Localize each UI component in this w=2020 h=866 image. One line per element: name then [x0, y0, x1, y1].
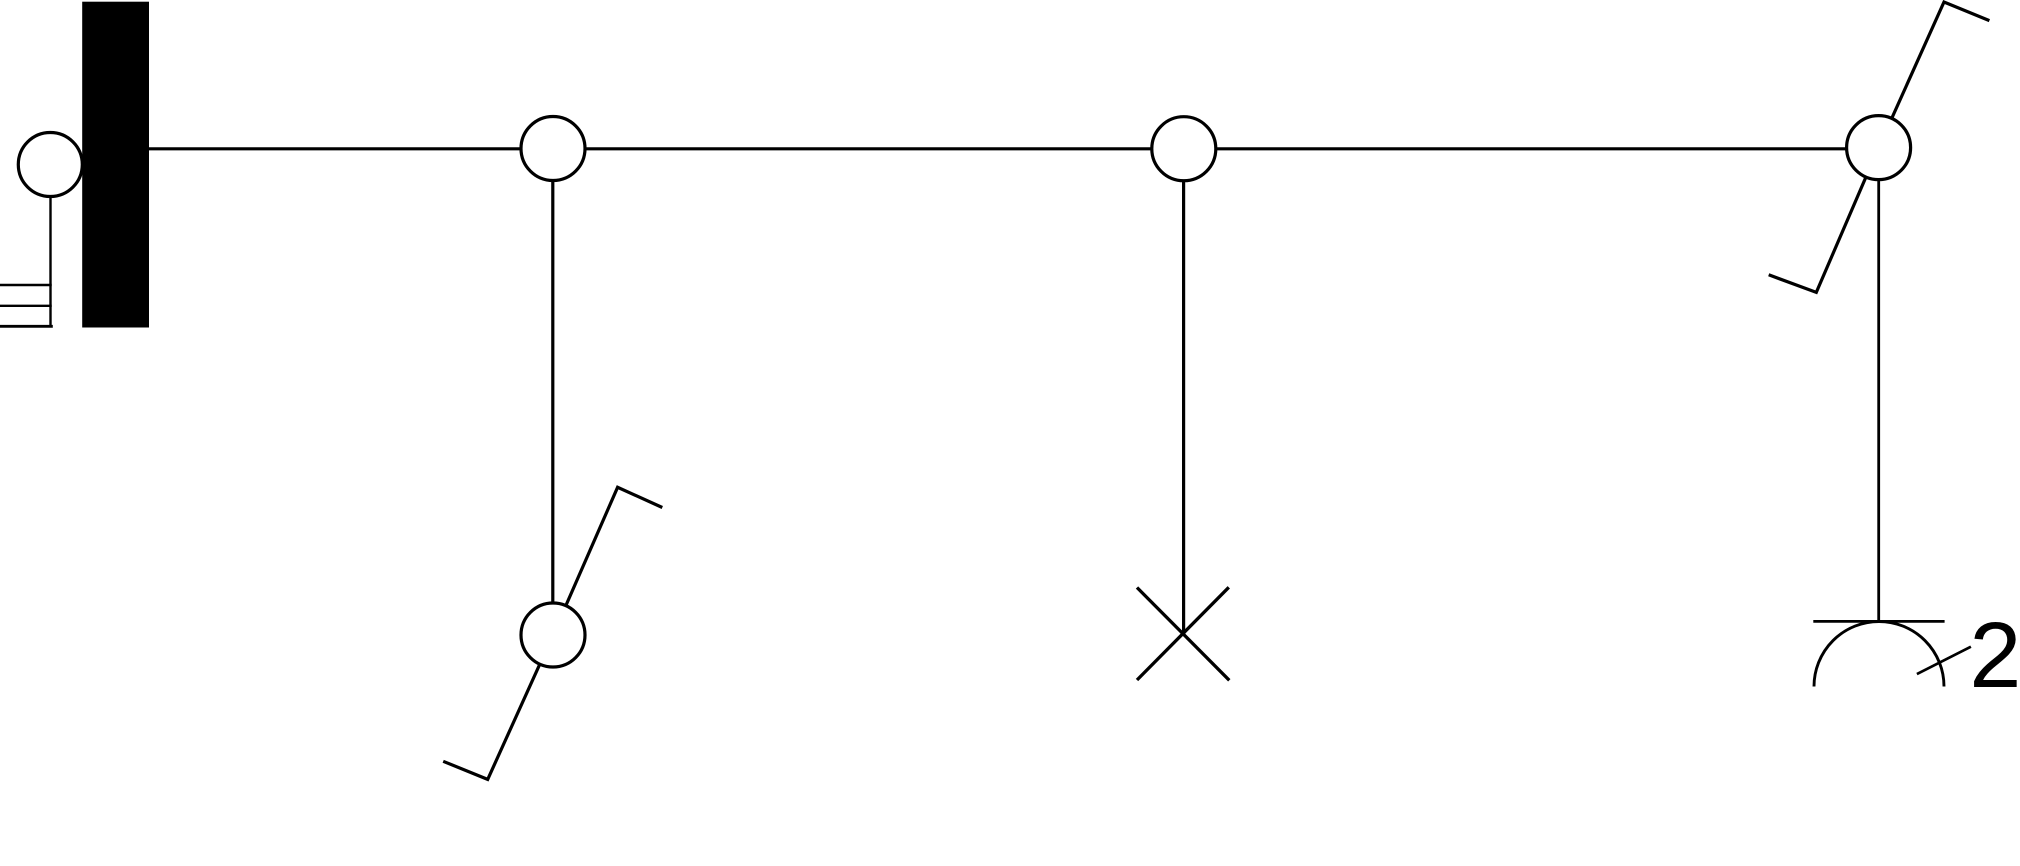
- switch S2 upper lever: [1879, 2, 1990, 148]
- switch S2 circle on bus: [1847, 116, 1911, 180]
- wire: drop from node J2 to lamp: [1182, 150, 1185, 634]
- switch S1 upper lever: [553, 487, 662, 635]
- wire: drop from switch S2 to socket: [1877, 150, 1880, 621]
- generator/meter circle: [18, 133, 82, 197]
- earth electrode line 2: [0, 305, 52, 307]
- earth electrode line 1: [0, 284, 52, 286]
- node J1 (junction box on bus): [521, 117, 585, 181]
- socket quantity label 2: [1969, 603, 2020, 707]
- wire: generator drop to earth: [49, 180, 51, 327]
- switch S1 lower lever: [443, 635, 553, 779]
- lamp outlet X stroke 2: [1137, 587, 1229, 680]
- socket quantity slash: [1917, 647, 1971, 674]
- socket outlet wall line: [1813, 620, 1944, 623]
- node J2 (junction box on bus): [1152, 117, 1216, 181]
- lamp outlet X stroke 1: [1137, 588, 1229, 681]
- switch S2 lower lever: [1769, 148, 1879, 293]
- socket outlet arc: [1814, 622, 1944, 687]
- busbar (distribution board): [82, 2, 149, 328]
- svg-text:2: 2: [1969, 603, 2020, 707]
- switch S1 circle: [521, 603, 585, 667]
- wire: main bus: [149, 147, 1879, 150]
- wire: drop from node J1 to switch S1: [551, 150, 554, 634]
- earth electrode line 3: [0, 325, 53, 328]
